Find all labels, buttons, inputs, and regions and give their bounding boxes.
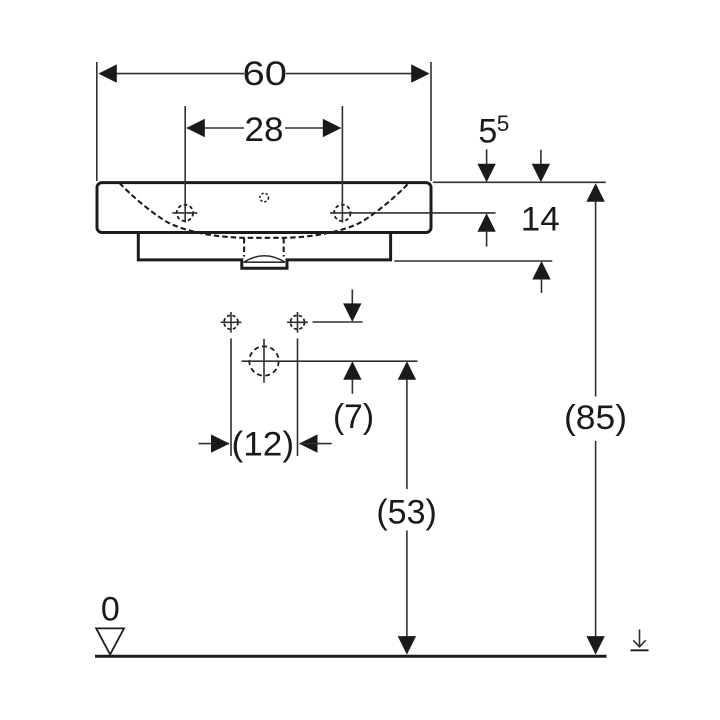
svg-text:(53): (53) <box>376 493 437 531</box>
svg-text:5: 5 <box>478 113 497 151</box>
svg-text:5: 5 <box>497 111 510 136</box>
svg-text:(12): (12) <box>232 425 295 463</box>
svg-text:60: 60 <box>243 55 288 93</box>
svg-text:(7): (7) <box>333 398 374 436</box>
svg-text:(85): (85) <box>564 399 627 437</box>
svg-text:0: 0 <box>101 591 120 629</box>
svg-text:28: 28 <box>245 111 284 149</box>
svg-text:14: 14 <box>521 201 560 239</box>
